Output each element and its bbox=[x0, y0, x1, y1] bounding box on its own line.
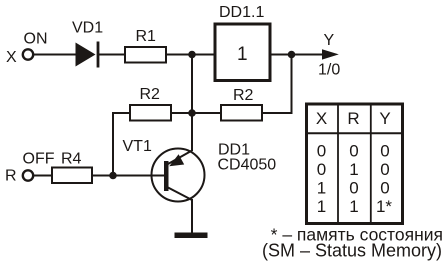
svg-text:R: R bbox=[347, 109, 359, 128]
svg-text:DD1.1: DD1.1 bbox=[219, 4, 264, 21]
table column R values bbox=[349, 142, 358, 217]
svg-text:X: X bbox=[316, 109, 327, 128]
svg-text:0: 0 bbox=[380, 179, 389, 198]
wire VD1 to R1 bbox=[98, 54, 124, 56]
resistor R2 left bbox=[130, 105, 171, 121]
svg-text:R: R bbox=[5, 168, 17, 185]
node B junction dot bbox=[188, 109, 196, 117]
svg-text:R1: R1 bbox=[136, 28, 157, 45]
svg-text:R2: R2 bbox=[140, 86, 161, 103]
svg-text:OFF: OFF bbox=[23, 151, 55, 168]
svg-text:Y: Y bbox=[324, 32, 335, 49]
svg-text:(SM – Status Memory): (SM – Status Memory) bbox=[262, 241, 442, 261]
transistor VT1 bbox=[152, 149, 205, 202]
svg-text:1*: 1* bbox=[376, 197, 392, 216]
op-amp buffer DD1.1 box bbox=[215, 24, 270, 81]
svg-text:0: 0 bbox=[349, 142, 358, 161]
terminal R input circle bbox=[23, 170, 33, 180]
table column Y values bbox=[376, 142, 392, 217]
wire R1 to DD1.1 bbox=[166, 54, 214, 56]
svg-text:X: X bbox=[6, 49, 17, 66]
svg-text:1: 1 bbox=[237, 44, 248, 65]
svg-text:CD4050: CD4050 bbox=[218, 157, 277, 174]
wire node A down to node B bbox=[191, 55, 193, 114]
svg-text:1: 1 bbox=[317, 179, 326, 198]
wire R2 left down to base node bbox=[113, 113, 130, 176]
wire DD1.1 output to arrow bbox=[272, 54, 323, 56]
svg-text:ON: ON bbox=[24, 31, 48, 48]
svg-text:Y: Y bbox=[379, 109, 390, 128]
svg-text:0: 0 bbox=[380, 160, 389, 179]
svg-text:0: 0 bbox=[317, 142, 326, 161]
wire collector down to ground bbox=[191, 199, 193, 234]
wire emitter up to node B bbox=[191, 113, 193, 151]
resistor R2 right (feedback) bbox=[221, 105, 262, 121]
diode VD1 bbox=[76, 42, 99, 68]
wire R2 right to node B bbox=[192, 112, 221, 114]
wire R terminal to R4 bbox=[33, 175, 52, 177]
base node junction dot bbox=[109, 172, 117, 180]
truth table frame bbox=[305, 103, 403, 224]
output junction dot bbox=[288, 51, 296, 59]
wire R4 to VT1 base bbox=[92, 175, 164, 177]
resistor R1 bbox=[125, 47, 166, 63]
svg-text:0: 0 bbox=[380, 142, 389, 161]
svg-text:1: 1 bbox=[317, 197, 326, 216]
svg-text:1: 1 bbox=[349, 197, 358, 216]
svg-text:1/0: 1/0 bbox=[318, 62, 340, 79]
svg-text:R2: R2 bbox=[233, 87, 254, 104]
wire node B to R2 left bbox=[172, 112, 192, 114]
svg-text:1: 1 bbox=[349, 160, 358, 179]
svg-text:R4: R4 bbox=[61, 151, 82, 168]
svg-text:0: 0 bbox=[317, 160, 326, 179]
svg-text:VD1: VD1 bbox=[72, 20, 103, 37]
wire output dot down to R2 right bbox=[263, 55, 292, 114]
svg-text:VT1: VT1 bbox=[123, 138, 152, 155]
ground bbox=[175, 233, 208, 239]
table column X values bbox=[317, 142, 326, 217]
wire X to VD1 bbox=[33, 54, 76, 56]
node A junction dot bbox=[188, 51, 196, 59]
svg-text:0: 0 bbox=[349, 179, 358, 198]
terminal X input circle bbox=[23, 49, 33, 59]
output arrow Y bbox=[322, 49, 339, 59]
resistor R4 bbox=[52, 168, 92, 184]
